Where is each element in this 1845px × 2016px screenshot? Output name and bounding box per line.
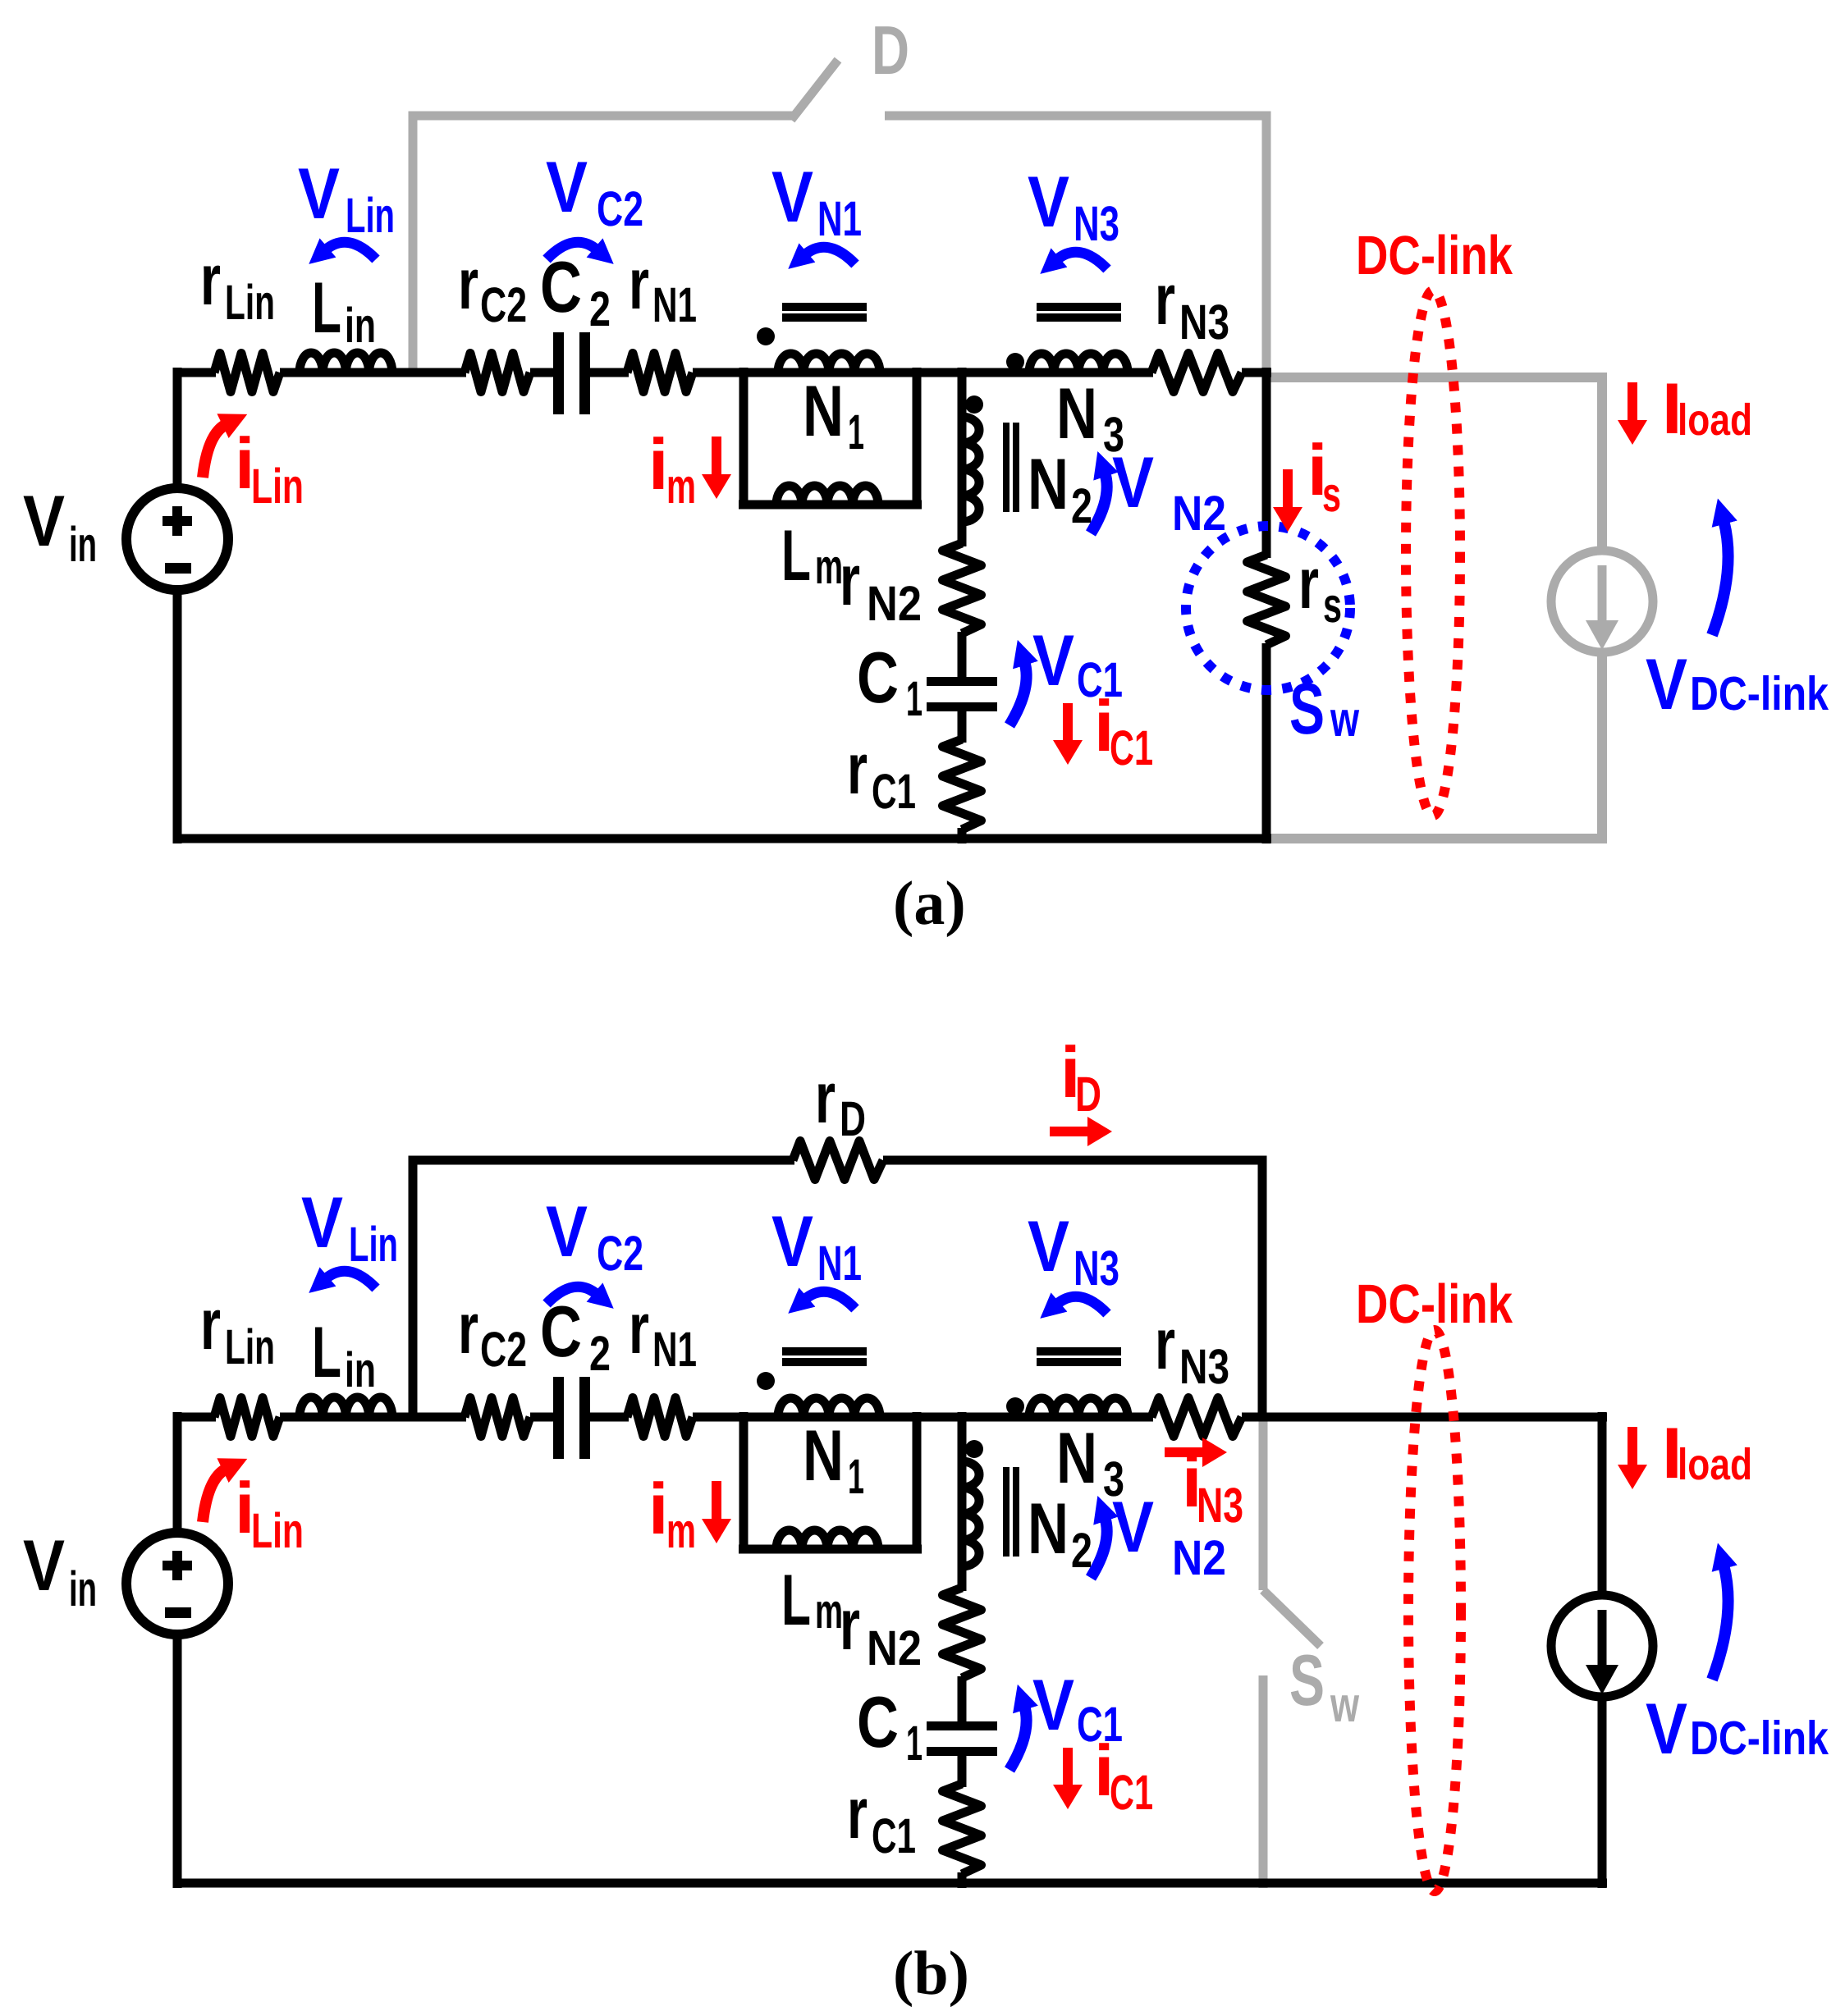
- wire rN2 to C1 (fig b): [958, 1676, 967, 1723]
- svg-text:V: V: [23, 1525, 65, 1606]
- svg-text:m: m: [666, 459, 696, 514]
- capacitor C1: [927, 677, 997, 711]
- resistor rC1: [943, 739, 982, 830]
- wire left riser lower (fig b): [173, 1630, 182, 1888]
- svg-text:S: S: [1289, 1639, 1325, 1721]
- svg-text:N: N: [803, 1415, 844, 1496]
- label Lin (fig b): [312, 1311, 376, 1397]
- wire rN1 to N1: [693, 368, 782, 377]
- svg-text:V: V: [298, 153, 340, 234]
- switch Sw blade (gray): [1263, 1590, 1321, 1646]
- svg-text:V: V: [1646, 643, 1687, 725]
- inductor Lm: [776, 486, 878, 505]
- svg-text:r: r: [847, 728, 868, 809]
- wire N3 to rN3: [1128, 368, 1153, 377]
- svg-text:N2: N2: [1172, 1530, 1226, 1585]
- polarity dot N1: [757, 327, 775, 345]
- svg-text:in: in: [69, 1561, 97, 1616]
- svg-text:m: m: [815, 539, 843, 594]
- label rC1 (fig b): [847, 1772, 916, 1863]
- inductor Lin: [300, 353, 392, 373]
- load rail right wire lower (black, fig b): [1598, 1695, 1607, 1888]
- resistor rC1 (fig b): [943, 1784, 982, 1874]
- wire C1 to rC1 (fig b): [958, 1755, 967, 1787]
- svg-text:r: r: [629, 243, 649, 324]
- bottom return wire (fig b): [173, 1879, 1607, 1888]
- svg-text:N1: N1: [817, 1236, 862, 1291]
- svg-text:C2: C2: [480, 277, 527, 332]
- label iLin (red) with arc arrow: [203, 423, 304, 514]
- label rN2: [840, 539, 922, 631]
- label VC1 (blue, fig b) with arc: [1009, 1664, 1123, 1770]
- svg-text:V: V: [546, 1191, 588, 1272]
- svg-text:w: w: [1330, 692, 1359, 747]
- magnetic core N3: [1037, 303, 1121, 322]
- label iLin (red, fig b) with arc arrow: [203, 1467, 304, 1558]
- label Lm (fig b): [781, 1559, 843, 1640]
- label N1: [803, 370, 864, 459]
- svg-text:1: 1: [906, 1716, 922, 1771]
- label Sw (blue): [1289, 668, 1359, 749]
- svg-text:r: r: [200, 1283, 221, 1365]
- label VDC-link (blue, fig b) with arc: [1646, 1565, 1829, 1769]
- label rN2 (fig b): [840, 1584, 922, 1675]
- label iC1 (red, fig b) with down arrow: [1053, 1730, 1153, 1820]
- svg-text:Lin: Lin: [346, 188, 395, 243]
- label VDC-link (blue) with arc: [1646, 520, 1829, 725]
- svg-text:m: m: [666, 1503, 696, 1558]
- svg-text:(b): (b): [893, 1939, 969, 2008]
- resistor rN3: [1151, 354, 1242, 392]
- svg-text:s: s: [1322, 467, 1341, 522]
- wire N1 to N3 (fig b): [880, 1413, 1037, 1422]
- diode loop wire right (black, fig b): [883, 1160, 1262, 1421]
- svg-text:L: L: [781, 514, 811, 596]
- polarity dot N2: [965, 395, 983, 414]
- svg-text:Lin: Lin: [225, 1319, 275, 1374]
- svg-text:N1: N1: [817, 191, 862, 246]
- label is (red) with down arrow: [1273, 429, 1341, 532]
- winding N1 (fig b): [778, 1413, 880, 1422]
- label N2: [1028, 443, 1092, 533]
- polarity dot N3 (fig b): [1006, 1397, 1024, 1415]
- svg-text:load: load: [1678, 1440, 1752, 1489]
- label rN1 (fig b): [629, 1287, 697, 1377]
- svg-text:i: i: [648, 1468, 668, 1549]
- label Sw (gray): [1289, 1639, 1359, 1732]
- winding N2 (vertical): [958, 417, 967, 522]
- magnetic core N2 (vertical): [1003, 423, 1019, 512]
- svg-text:Lin: Lin: [225, 275, 275, 330]
- resistor rC2: [465, 354, 530, 392]
- label C1 (fig b): [857, 1681, 922, 1771]
- svg-text:D: D: [840, 1091, 866, 1146]
- svg-text:C1: C1: [872, 1808, 916, 1863]
- wire C2 to rN1 (fig b): [590, 1413, 629, 1422]
- wire rC1 to bottom (fig b): [958, 1872, 967, 1888]
- magnetizing branch rectangle right riser: [913, 368, 922, 509]
- label rLin: [200, 239, 275, 330]
- svg-text:N2: N2: [1172, 486, 1226, 541]
- svg-text:N: N: [803, 370, 844, 451]
- magnetizing branch bottom wire with Lm winding (fig b): [739, 1545, 922, 1554]
- svg-text:r: r: [458, 1287, 478, 1369]
- winding N3 (fig b): [1029, 1413, 1128, 1422]
- svg-text:r: r: [815, 1057, 836, 1138]
- magnetic core N1 (fig b): [782, 1347, 867, 1366]
- resistor rN2 (fig b): [943, 1588, 982, 1678]
- label Iload (red, fig b) with down arrow: [1618, 1412, 1752, 1493]
- magnetic core N2 (fig b): [1003, 1467, 1019, 1557]
- label rC1: [847, 728, 916, 819]
- label VN3 (blue) with arc: [1028, 161, 1119, 269]
- svg-text:r: r: [1298, 542, 1319, 624]
- inductor Lin (fig b): [300, 1397, 392, 1417]
- winding N1 (on main wire): [778, 368, 880, 377]
- switch Sw wire lower (gray): [1259, 1675, 1268, 1888]
- svg-text:r: r: [200, 239, 221, 320]
- label rD: [815, 1057, 866, 1146]
- svg-text:N3: N3: [1179, 295, 1229, 350]
- svg-text:1: 1: [848, 1449, 864, 1504]
- svg-text:N1: N1: [652, 1322, 697, 1377]
- label VN1 (blue, fig b) with arc: [771, 1200, 862, 1309]
- resistor rN3 (fig b): [1151, 1398, 1242, 1437]
- svg-text:C1: C1: [1110, 1765, 1153, 1820]
- resistor rN2: [943, 543, 982, 633]
- svg-text:L: L: [312, 1311, 341, 1392]
- svg-text:L: L: [781, 1559, 811, 1640]
- label rC2 (fig b): [458, 1287, 527, 1377]
- label rC2: [458, 243, 527, 332]
- svg-text:N: N: [1028, 1488, 1069, 1569]
- DC-link rail right wire lower (gray): [1597, 651, 1607, 843]
- svg-text:1: 1: [848, 405, 864, 459]
- resistor rLin (fig b): [214, 1398, 280, 1437]
- capacitor C2 (fig b): [553, 1377, 590, 1459]
- svg-text:C2: C2: [597, 1226, 643, 1281]
- label C2: [540, 246, 611, 336]
- svg-text:s: s: [1323, 578, 1342, 633]
- DC-link rail right wire upper (gray): [1597, 373, 1607, 552]
- DC-link dotted ellipse (red): [1406, 290, 1460, 816]
- magnetizing branch rectangle right riser (fig b): [913, 1412, 922, 1553]
- magnetizing branch rectangle left riser: [739, 368, 749, 509]
- diode D loop wire top-right (gray): [885, 116, 1266, 377]
- label rN3: [1155, 258, 1229, 350]
- wire rC1 to bottom: [958, 828, 967, 843]
- svg-text:Lin: Lin: [349, 1217, 398, 1272]
- svg-text:V: V: [23, 480, 65, 561]
- svg-text:C: C: [857, 1681, 899, 1762]
- resistor rLin: [214, 354, 280, 392]
- svg-text:1: 1: [906, 671, 922, 726]
- svg-text:N3: N3: [1074, 1241, 1119, 1296]
- svg-text:C2: C2: [597, 181, 643, 236]
- wire rN3 to node: [1242, 368, 1271, 377]
- svg-text:in: in: [345, 298, 376, 353]
- label rN3 (fig b): [1155, 1303, 1229, 1394]
- DC-link rail top wire (gray): [1266, 373, 1602, 382]
- wire left riser lower (fig a): [173, 585, 182, 843]
- label rLin (fig b): [200, 1283, 275, 1374]
- svg-text:N: N: [1056, 1417, 1097, 1498]
- label N3: [1056, 373, 1124, 462]
- wire rN1 to N1 (fig b): [693, 1413, 782, 1422]
- wire main left stub (fig b): [173, 1413, 216, 1422]
- svg-text:in: in: [69, 517, 97, 572]
- svg-text:DC-link: DC-link: [1690, 667, 1829, 720]
- wire N2 to rN2 (fig b): [958, 1566, 967, 1591]
- svg-text:in: in: [345, 1342, 376, 1397]
- label N2 (fig b): [1028, 1488, 1092, 1578]
- capacitor C1 (fig b): [927, 1721, 997, 1756]
- svg-text:L: L: [312, 267, 341, 348]
- label Lm: [781, 514, 843, 596]
- svg-text:N3: N3: [1179, 1339, 1229, 1394]
- label C1: [857, 637, 922, 726]
- label VN2 (blue, fig b) with arc: [1091, 1486, 1226, 1585]
- label rN1: [629, 243, 697, 332]
- svg-text:V: V: [771, 1200, 813, 1282]
- label VC2 (blue, fig b) with arc: [546, 1191, 643, 1304]
- svg-text:D: D: [1075, 1067, 1101, 1122]
- resistor rC2 (fig b): [465, 1398, 530, 1437]
- DC-link dotted ellipse (red, fig b): [1408, 1330, 1461, 1891]
- svg-text:N: N: [1028, 443, 1069, 524]
- magnetizing branch bottom wire with Lm winding: [739, 501, 922, 510]
- svg-text:(a): (a): [893, 869, 966, 938]
- load rail right wire upper (black, fig b): [1598, 1412, 1607, 1597]
- svg-text:V: V: [546, 146, 588, 227]
- resistor rD (fig b): [793, 1141, 883, 1180]
- inductor Lm (fig b): [776, 1530, 878, 1549]
- svg-text:V: V: [301, 1182, 343, 1263]
- svg-text:2: 2: [589, 1326, 611, 1381]
- svg-text:load: load: [1678, 395, 1752, 445]
- svg-text:V: V: [1112, 441, 1154, 523]
- polarity dot N3: [1006, 353, 1024, 371]
- svg-text:2: 2: [589, 281, 611, 336]
- svg-text:i: i: [648, 423, 668, 505]
- svg-text:Lin: Lin: [251, 459, 304, 514]
- node junction wire down to N2 (fig b): [958, 1412, 967, 1463]
- magnetizing branch rectangle left riser (fig b): [739, 1412, 749, 1553]
- svg-text:D: D: [872, 11, 909, 89]
- label Iload (red) with down arrow: [1618, 368, 1752, 449]
- label Lin: [312, 267, 376, 353]
- svg-text:r: r: [1155, 258, 1175, 340]
- svg-text:S: S: [1289, 668, 1325, 749]
- svg-text:V: V: [1032, 619, 1074, 701]
- label im (red, fig b) with down arrow: [648, 1468, 731, 1558]
- winding N3 (on main wire): [1029, 368, 1128, 377]
- label VC1 (blue) with arc: [1009, 619, 1123, 725]
- svg-text:Lin: Lin: [251, 1503, 304, 1558]
- label iN3 (red) with right arrow: [1165, 1438, 1243, 1533]
- load current source Iload (gray, fig a): [1551, 551, 1653, 652]
- wire N3 to rN3 (fig b): [1128, 1413, 1153, 1422]
- switch branch wire upper (fig a): [1262, 368, 1271, 558]
- magnetic core N3 (fig b): [1037, 1347, 1121, 1366]
- wire left riser upper (fig a): [173, 368, 182, 493]
- svg-text:V: V: [1032, 1664, 1074, 1745]
- wire left riser upper (fig b): [173, 1412, 182, 1538]
- resistor rN1: [627, 354, 693, 392]
- svg-text:N2: N2: [867, 1621, 922, 1675]
- winding N2 vertical (fig b): [958, 1461, 967, 1566]
- wire C1 to rC1: [958, 711, 967, 743]
- magnetic core N1: [782, 303, 867, 322]
- resistor rs: [1248, 555, 1286, 645]
- svg-text:r: r: [840, 1584, 860, 1665]
- node junction wire down to N2: [958, 368, 967, 418]
- wire N2 to rN2: [958, 522, 967, 546]
- label N3 (fig b): [1056, 1417, 1124, 1506]
- switch branch wire lower (fig a): [1262, 643, 1271, 843]
- wire rLin to C2 under Lin: [280, 368, 466, 377]
- bottom return wire (fig a): [173, 834, 1271, 843]
- wire main left stub: [173, 368, 216, 377]
- label VN1 (blue) with arc: [771, 156, 862, 264]
- svg-text:r: r: [458, 243, 478, 324]
- svg-text:DC-link: DC-link: [1356, 225, 1513, 286]
- load current source Iload (black, fig b): [1551, 1595, 1653, 1697]
- wire C2 to rN1: [590, 368, 629, 377]
- svg-text:DC-link: DC-link: [1356, 1273, 1513, 1335]
- diode loop wire (black, fig b): [413, 1160, 794, 1421]
- svg-text:N3: N3: [1197, 1478, 1243, 1533]
- label C2 (fig b): [540, 1291, 611, 1381]
- svg-text:N1: N1: [652, 277, 697, 332]
- svg-text:C1: C1: [872, 764, 916, 819]
- polarity dot N1 (fig b): [757, 1372, 775, 1390]
- label VN3 (blue, fig b) with arc: [1028, 1205, 1119, 1314]
- label im (red) with down arrow: [648, 423, 731, 514]
- polarity dot N2 (fig b): [965, 1440, 983, 1458]
- label VLin (blue, fig b) with arc: [301, 1182, 398, 1288]
- diode D loop wire left+top (gray): [413, 116, 794, 377]
- svg-text:r: r: [629, 1287, 649, 1369]
- switch Sw dotted circle (blue): [1186, 526, 1350, 690]
- svg-text:V: V: [1646, 1688, 1687, 1769]
- wire N1 to N3: [880, 368, 1037, 377]
- resistor rN1 (fig b): [627, 1398, 693, 1437]
- svg-text:N2: N2: [867, 576, 922, 631]
- voltage source Vin (fig b): [126, 1533, 228, 1634]
- label VC2 (blue) with arc: [546, 146, 643, 259]
- label rs: [1298, 542, 1342, 633]
- label VLin (blue) with arc: [298, 153, 395, 259]
- wire rN3 to load rail (black, fig b): [1242, 1413, 1607, 1422]
- svg-text:w: w: [1330, 1677, 1359, 1732]
- wire rN2 to C1: [958, 632, 967, 679]
- diode D switch blade (gray): [791, 60, 838, 120]
- switch Sw wire upper (gray, fig b): [1259, 1417, 1268, 1590]
- svg-text:V: V: [771, 156, 813, 237]
- svg-text:N: N: [1056, 373, 1097, 454]
- svg-text:r: r: [840, 539, 860, 620]
- wire rC2 to C2: [530, 368, 555, 377]
- label iD (red) with right arrow: [1050, 1031, 1112, 1146]
- svg-text:V: V: [1028, 161, 1069, 242]
- label Vin: [23, 480, 97, 572]
- svg-text:V: V: [1028, 1205, 1069, 1287]
- svg-text:DC-link: DC-link: [1690, 1712, 1829, 1765]
- label Vin (fig b): [23, 1525, 97, 1616]
- DC-link rail bottom wire (gray): [1266, 834, 1607, 843]
- svg-text:C1: C1: [1110, 720, 1153, 775]
- label iC1 (red) with down arrow: [1053, 685, 1153, 775]
- wire rC2 to C2 (fig b): [530, 1413, 555, 1422]
- svg-text:m: m: [815, 1584, 843, 1639]
- svg-text:C: C: [857, 637, 899, 718]
- label N1 (fig b): [803, 1415, 864, 1504]
- svg-text:r: r: [1155, 1303, 1175, 1384]
- svg-text:N3: N3: [1074, 196, 1119, 251]
- label VN2 (blue) with arc: [1091, 441, 1226, 541]
- wire rLin to C2 under Lin (fig b): [280, 1413, 466, 1422]
- voltage source Vin (fig a): [126, 488, 228, 590]
- svg-text:r: r: [847, 1772, 868, 1854]
- svg-text:C2: C2: [480, 1322, 527, 1377]
- svg-text:V: V: [1112, 1486, 1154, 1567]
- capacitor C2: [553, 332, 590, 414]
